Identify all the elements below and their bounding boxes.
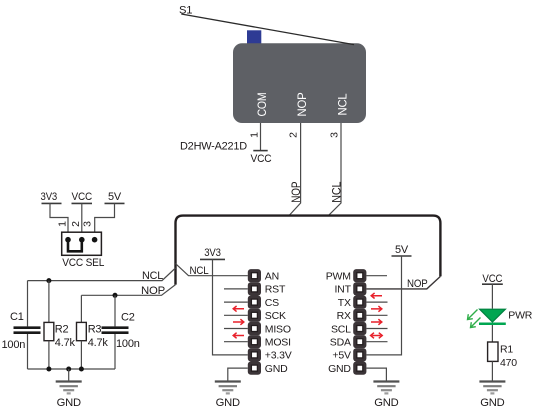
power 3V3 (left header) xyxy=(200,247,225,259)
body xyxy=(233,43,366,123)
wire stub SCK xyxy=(224,314,248,316)
svg-text:5V: 5V xyxy=(108,191,122,203)
direction arrow CS (left) xyxy=(233,306,244,312)
svg-text:TX: TX xyxy=(338,297,351,309)
svg-text:NCL: NCL xyxy=(190,265,209,277)
wire switch pin 1 to VCC xyxy=(260,123,262,150)
svg-text:3: 3 xyxy=(329,132,341,138)
svg-text:NOP: NOP xyxy=(295,92,309,116)
svg-text:VCC: VCC xyxy=(482,273,502,285)
svg-text:SCK: SCK xyxy=(265,310,286,322)
plunger button xyxy=(247,30,261,43)
svg-text:CS: CS xyxy=(265,297,279,309)
svg-text:PWR: PWR xyxy=(508,310,533,322)
direction arrow MISO (left) xyxy=(233,333,244,339)
svg-text:100n: 100n xyxy=(2,339,26,351)
emission arrows xyxy=(468,310,478,320)
wire R1 to ground xyxy=(491,361,493,381)
jumper shunt pins 1-2 xyxy=(68,240,82,251)
svg-text:SCL: SCL xyxy=(331,323,351,335)
svg-text:3: 3 xyxy=(81,221,93,227)
svg-text:GND: GND xyxy=(265,363,288,375)
svg-text:VCC: VCC xyxy=(72,191,93,203)
resistor R3 xyxy=(77,295,87,369)
direction arrow TX (right) xyxy=(371,306,382,312)
power 5V (VCC SEL) xyxy=(105,191,125,204)
wire 3V3 to VCC SEL pin 1 xyxy=(50,203,68,239)
wire ground rail (caps) xyxy=(28,368,116,370)
svg-text:1: 1 xyxy=(56,221,68,227)
wire NOP rail into bus (left) xyxy=(81,285,175,296)
svg-text:INT: INT xyxy=(334,284,351,296)
resistor R2 xyxy=(44,281,54,369)
svg-text:RST: RST xyxy=(265,284,286,296)
svg-text:+5V: +5V xyxy=(332,350,351,362)
wire NCL rail into bus (left) xyxy=(28,268,176,281)
wire VCC to VCC SEL pin 2 xyxy=(81,203,83,239)
capacitor C1 xyxy=(14,281,41,369)
svg-text:R1: R1 xyxy=(500,344,513,356)
wire stub TX xyxy=(366,301,387,303)
wire stub MOSI xyxy=(224,341,248,343)
svg-text:RX: RX xyxy=(337,310,351,322)
svg-text:MISO: MISO xyxy=(265,323,291,335)
svg-text:1: 1 xyxy=(249,132,261,138)
lever arm xyxy=(181,14,354,45)
svg-text:VCC: VCC xyxy=(251,153,272,165)
svg-text:COM: COM xyxy=(255,92,269,116)
svg-text:4.7k: 4.7k xyxy=(88,337,109,349)
power VCC (LED) xyxy=(482,273,503,285)
svg-text:S1: S1 xyxy=(179,5,192,17)
switch S1 xyxy=(181,14,366,123)
svg-text:3V3: 3V3 xyxy=(41,191,58,203)
LED PWR (D1) xyxy=(468,309,506,327)
svg-text:NOP: NOP xyxy=(289,182,303,203)
svg-text:5V: 5V xyxy=(395,244,409,256)
svg-text:100n: 100n xyxy=(116,338,140,350)
wire stub MISO xyxy=(224,328,248,330)
svg-text:2: 2 xyxy=(288,132,300,138)
junction dot NCL rail / R2 xyxy=(46,278,51,283)
wire stub SCL xyxy=(366,328,387,330)
svg-text:GND: GND xyxy=(57,397,81,409)
ground (left header) xyxy=(215,382,241,409)
wire stub PWM xyxy=(366,275,387,277)
wire VCC to LED anode xyxy=(491,284,493,308)
ground (LED) xyxy=(479,382,505,409)
svg-text:470: 470 xyxy=(500,357,517,369)
wire switch pin 2 (NOP) to bus xyxy=(289,123,301,216)
wire stub CS xyxy=(224,301,248,303)
power 5V (right header) xyxy=(392,244,412,256)
wire GND (left header) xyxy=(228,368,248,381)
svg-text:NCL: NCL xyxy=(142,270,163,282)
wire switch pin 3 (NCL) to bus xyxy=(328,123,341,216)
svg-text:+3.3V: +3.3V xyxy=(265,350,292,362)
svg-text:GND: GND xyxy=(480,397,504,409)
capacitor C2 xyxy=(102,295,129,369)
direction arrow SDA (both) xyxy=(371,333,383,339)
wire bus to INT pin (NOP) xyxy=(366,276,440,289)
direction arrow RX (right) xyxy=(371,319,382,325)
resistor R1 xyxy=(488,342,498,361)
svg-text:GND: GND xyxy=(216,397,240,409)
svg-text:NCL: NCL xyxy=(330,181,344,202)
wire 5V to +5V pin xyxy=(366,256,401,355)
svg-text:GND: GND xyxy=(374,397,398,409)
svg-text:C2: C2 xyxy=(121,312,135,324)
svg-text:2: 2 xyxy=(70,221,82,227)
svg-text:C1: C1 xyxy=(10,311,24,323)
svg-text:R3: R3 xyxy=(88,324,102,336)
svg-text:AN: AN xyxy=(265,271,279,283)
svg-text:D2HW-A221D: D2HW-A221D xyxy=(180,141,247,153)
junction dot rail/R2 xyxy=(46,367,51,372)
header J1 VCC SEL xyxy=(62,232,102,255)
header P2 (mikroBUS right) xyxy=(353,269,366,375)
svg-text:SDA: SDA xyxy=(330,337,351,349)
direction arrow SCK (right) xyxy=(233,319,244,325)
svg-text:MOSI: MOSI xyxy=(265,337,291,349)
wire GND (right header) xyxy=(366,368,386,381)
wire stub SDA xyxy=(366,341,387,343)
svg-text:4.7k: 4.7k xyxy=(55,337,76,349)
direction arrow INT (left) xyxy=(371,293,382,299)
ground (filter rail) xyxy=(56,369,82,409)
svg-text:GND: GND xyxy=(328,363,351,375)
junction dot rail/GND xyxy=(66,367,71,372)
svg-text:PWM: PWM xyxy=(326,271,351,283)
wire bus to AN pin (NCL) xyxy=(176,264,248,276)
header P1 (mikroBUS left) xyxy=(248,269,261,375)
bus routing highway xyxy=(176,216,441,285)
power VCC (switch pin 1) xyxy=(251,151,272,165)
svg-text:NCL: NCL xyxy=(335,93,349,115)
wire 5V to VCC SEL pin 3 xyxy=(95,203,115,239)
svg-text:3V3: 3V3 xyxy=(204,247,221,259)
power 3V3 (VCC SEL) xyxy=(41,191,62,204)
wire 3V3 to +3.3V pin xyxy=(213,259,248,355)
wire stub RST xyxy=(224,288,248,290)
ground (right header) xyxy=(373,382,399,409)
junction dot NOP rail / C2 xyxy=(113,293,118,298)
svg-text:R2: R2 xyxy=(55,324,69,336)
junction dot rail/R3 xyxy=(79,367,84,372)
svg-text:NOP: NOP xyxy=(141,285,165,297)
wire LED cathode to R1 xyxy=(491,325,493,342)
svg-text:NOP: NOP xyxy=(407,278,428,290)
svg-text:VCC SEL: VCC SEL xyxy=(62,257,104,269)
wire stub RX xyxy=(366,314,387,316)
power VCC (VCC SEL) xyxy=(72,191,93,204)
